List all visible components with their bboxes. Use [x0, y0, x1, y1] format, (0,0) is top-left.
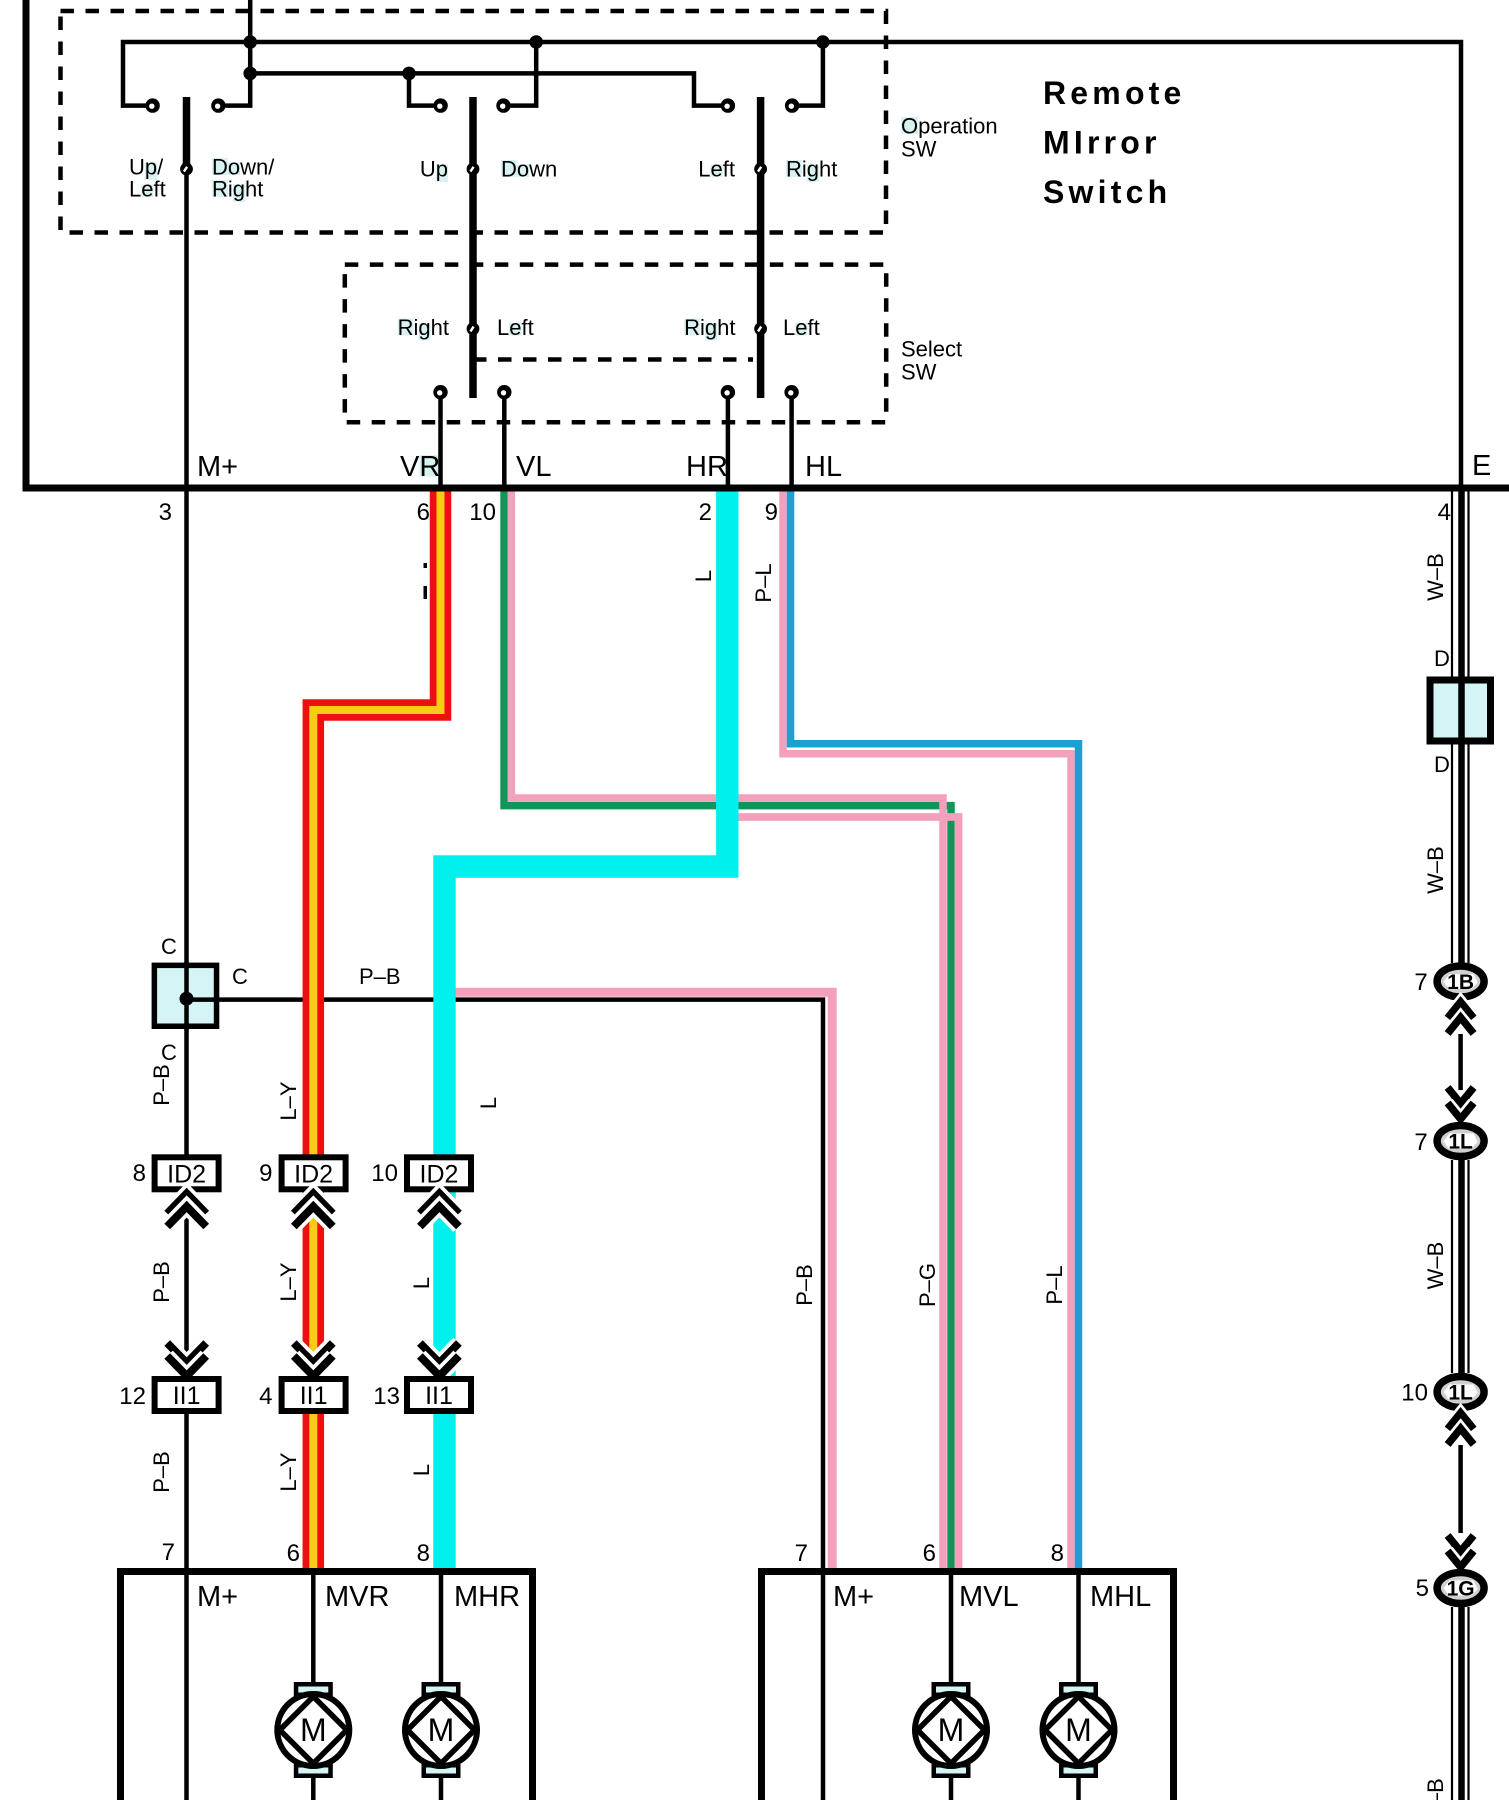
Remote Mirror Switch box edge [26, 0, 1509, 488]
svg-text:2: 2 [699, 499, 712, 526]
svg-text:Right: Right [786, 157, 837, 182]
svg-text:MIrror: MIrror [1043, 125, 1161, 161]
wire link 1L-1G [1458, 1445, 1463, 1533]
svg-text:8: 8 [133, 1160, 146, 1187]
svg-text:9: 9 [765, 499, 778, 526]
svg-text:Right: Right [684, 315, 735, 340]
pivot V bar (operation) [467, 163, 480, 176]
switch pole bar H (Left/Right + Right/Left select) [757, 97, 765, 398]
wire link 1B-1L [1458, 1034, 1463, 1090]
wire P pink alongside G [511, 486, 943, 1572]
svg-text:C: C [161, 934, 177, 959]
svg-text:1L: 1L [1448, 1131, 1473, 1154]
svg-text:II1: II1 [425, 1382, 453, 1410]
svg-text:HL: HL [805, 451, 842, 483]
connector ID2 (pin 9) [282, 1157, 346, 1189]
splice 1G [1437, 1573, 1484, 1604]
svg-text:MVR: MVR [325, 1581, 389, 1613]
svg-text:P–L: P–L [1042, 1265, 1067, 1304]
left mirror box [121, 1572, 533, 1800]
svg-text:8: 8 [417, 1540, 430, 1567]
svg-text:MVL: MVL [959, 1581, 1019, 1613]
letter highlights [145, 163, 157, 181]
svg-text:4: 4 [1438, 499, 1451, 526]
svg-text:9: 9 [259, 1160, 272, 1187]
svg-text:M: M [428, 1712, 455, 1748]
svg-text:SW: SW [901, 137, 937, 162]
contact select HR [721, 385, 735, 399]
svg-text:7: 7 [1414, 1129, 1427, 1156]
switch pole bar M+ [183, 97, 191, 169]
motor MVL [934, 1684, 969, 1695]
wire P pink lower branch [727, 817, 959, 1572]
svg-text:L: L [409, 1277, 434, 1289]
svg-text:5: 5 [1416, 1575, 1429, 1602]
svg-text:P–B: P–B [149, 1064, 174, 1106]
svg-text:L–Y: L–Y [276, 1452, 301, 1491]
wire G green (VL) [504, 486, 951, 1572]
svg-text:MHL: MHL [1090, 1581, 1151, 1613]
wire W-B through D square [1458, 680, 1465, 742]
svg-text:7: 7 [1414, 969, 1427, 996]
wire P-B pink [453, 992, 832, 1572]
right mirror box [762, 1572, 1174, 1800]
motor MHR [424, 1684, 459, 1695]
arrows below 1L pin10 [1448, 1413, 1474, 1429]
svg-text:D: D [1434, 646, 1450, 671]
arrows above II1 pin4 [294, 1343, 333, 1363]
svg-text:7: 7 [795, 1540, 808, 1567]
wire M+ from pole [184, 169, 189, 1800]
connector D square [1430, 680, 1491, 741]
wire W-B rail seg2 [1451, 744, 1453, 963]
svg-text:Right: Right [212, 177, 263, 202]
svg-text:W–B: W–B [1423, 553, 1448, 601]
connector II1 (pin 13) [407, 1379, 471, 1411]
junction dot bus1/feed [243, 35, 257, 49]
wire MHR inside [439, 1575, 444, 1800]
svg-text:Up: Up [420, 157, 448, 182]
arrows below ID2 pin9 [294, 1194, 333, 1214]
arrows below ID2 pin8 [167, 1194, 206, 1214]
wire M+ through C square [184, 962, 189, 1030]
svg-text:1L: 1L [1448, 1382, 1473, 1405]
svg-text:M+: M+ [197, 451, 238, 483]
wire P pink (HL) [783, 486, 1071, 1572]
svg-text:L–Y: L–Y [276, 1262, 301, 1301]
pivot M+ bar [180, 163, 193, 176]
wire stub HL [789, 399, 794, 488]
svg-text:P–L: P–L [751, 563, 776, 602]
wire L cyan (HR) [445, 486, 728, 1572]
svg-text:3: 3 [159, 499, 172, 526]
contact Up/Left [145, 98, 159, 112]
svg-text:Left: Left [783, 315, 820, 340]
contact select VR [433, 385, 447, 399]
svg-text:SW: SW [901, 360, 937, 385]
wire P-B black (M+ branch to right motor box) [187, 1000, 824, 1572]
svg-text:Left: Left [698, 157, 735, 182]
Select SW dashed box [345, 265, 886, 423]
junction dot bus1/down [529, 35, 543, 49]
svg-text:M: M [938, 1712, 965, 1748]
wire: contact link Down [511, 42, 537, 106]
contact Up [433, 98, 447, 112]
connector ID2 (pin 8) [155, 1157, 219, 1189]
svg-text:P–B: P–B [149, 1451, 174, 1493]
svg-text:VR: VR [400, 451, 440, 483]
wire MHL inside [1076, 1575, 1081, 1800]
svg-text:8: 8 [1051, 1540, 1064, 1567]
svg-text:E: E [1472, 450, 1491, 482]
svg-text:P–G: P–G [915, 1263, 940, 1307]
svg-text:10: 10 [469, 499, 496, 526]
svg-text:P–B: P–B [359, 964, 401, 989]
svg-text:6: 6 [287, 1540, 300, 1567]
wire W-B rail seg4 [1451, 1607, 1453, 1800]
wire L blue alongside (HL) [791, 486, 1079, 1572]
connector II1 (pin 12) [155, 1379, 219, 1411]
svg-text:II1: II1 [300, 1382, 328, 1410]
motor MVR [296, 1684, 331, 1695]
svg-text:12: 12 [119, 1383, 146, 1410]
svg-text:Left: Left [497, 315, 534, 340]
svg-text:P–B: P–B [149, 1261, 174, 1303]
pivot V bar (select) [467, 322, 480, 335]
wire W-B rail seg3 [1451, 1160, 1453, 1373]
contact Left [721, 98, 735, 112]
contact select VL [497, 385, 511, 399]
contact Down [496, 98, 510, 112]
arrows above II1 pin13 [420, 1343, 459, 1363]
wire: contact link Down/Right [225, 73, 250, 105]
svg-text:L: L [476, 1097, 501, 1109]
switch pole bar V (Up/Down + Right/Left select) [469, 97, 477, 398]
splice 1B [1437, 966, 1484, 997]
svg-text:Remote: Remote [1043, 75, 1186, 111]
svg-text:HR: HR [686, 451, 728, 483]
svg-text:P–B: P–B [792, 1264, 817, 1306]
wire M+ inside right box [821, 1575, 826, 1800]
svg-text:W–B: W–B [1423, 1778, 1448, 1800]
svg-text:1G: 1G [1447, 1578, 1475, 1601]
arrows below ID2 pin10 [420, 1194, 459, 1214]
svg-text:D: D [1434, 752, 1450, 777]
wire MVR inside [311, 1575, 316, 1800]
wire: bus 2 [250, 73, 721, 105]
arrows above II1 pin12 [167, 1343, 206, 1363]
connector ID2 (pin 10) [407, 1157, 471, 1189]
label L-Y (mostly hidden) [424, 563, 428, 568]
svg-text:Left: Left [129, 177, 166, 202]
connector II1 (pin 4) [282, 1379, 346, 1411]
svg-text:C: C [161, 1040, 177, 1065]
wire stub HR [726, 399, 731, 488]
splice 1L (pin 7) [1437, 1126, 1484, 1157]
svg-text:VL: VL [516, 451, 551, 483]
svg-text:10: 10 [371, 1160, 398, 1187]
svg-text:7: 7 [162, 1539, 175, 1566]
contact Down/Right [211, 98, 225, 112]
junction dot bus2/feed [243, 67, 257, 81]
svg-text:10: 10 [1401, 1380, 1428, 1407]
connector C square [154, 965, 216, 1026]
svg-text:L: L [691, 570, 716, 582]
Operation SW dashed box [61, 11, 887, 233]
wire: bus 1 to terminal E [123, 42, 1461, 486]
svg-text:M: M [1065, 1712, 1092, 1748]
pivot H bar (select) [754, 322, 767, 335]
svg-text:M+: M+ [833, 1581, 874, 1613]
contact Right [785, 98, 799, 112]
wire L-Y red/yellow (VR) [313, 486, 440, 1572]
svg-text:L: L [409, 1464, 434, 1476]
svg-text:MHR: MHR [454, 1581, 520, 1613]
svg-text:6: 6 [417, 499, 430, 526]
arrows below 1B [1448, 1002, 1474, 1018]
Select SW inner dashed divider [473, 357, 753, 362]
svg-text:L–Y: L–Y [276, 1081, 301, 1120]
svg-text:1B: 1B [1447, 971, 1474, 994]
svg-text:C: C [232, 964, 248, 989]
junction dot bus2/up [402, 67, 416, 81]
motor MHL [1061, 1684, 1096, 1695]
svg-text:Switch: Switch [1043, 174, 1171, 210]
svg-text:M: M [300, 1712, 327, 1748]
splice 1L (pin 10) [1437, 1377, 1484, 1408]
wire: contact link Up [409, 73, 434, 105]
wire stub VL [502, 399, 507, 488]
svg-text:Select: Select [901, 337, 962, 362]
wire stub VR [438, 399, 443, 488]
svg-text:13: 13 [373, 1383, 400, 1410]
svg-text:Down: Down [501, 157, 557, 182]
junction dot in C square [180, 992, 194, 1006]
wire: feed from top [248, 0, 253, 73]
wire W-B rail seg1 [1451, 491, 1453, 677]
svg-text:4: 4 [259, 1383, 272, 1410]
svg-text:M+: M+ [197, 1581, 238, 1613]
svg-text:Operation: Operation [901, 114, 998, 139]
svg-text:II1: II1 [173, 1382, 201, 1410]
contact select HL [784, 385, 798, 399]
svg-text:6: 6 [923, 1540, 936, 1567]
pivot H bar (operation) [754, 163, 767, 176]
arrows above 1L [1448, 1088, 1474, 1104]
wire: contact link Right [799, 42, 823, 106]
junction dot bus1/right [816, 35, 830, 49]
svg-text:W–B: W–B [1423, 846, 1448, 894]
wire MVL inside [949, 1575, 954, 1800]
arrows above 1G [1448, 1536, 1474, 1552]
svg-text:W–B: W–B [1423, 1242, 1448, 1290]
svg-text:Right: Right [398, 315, 449, 340]
